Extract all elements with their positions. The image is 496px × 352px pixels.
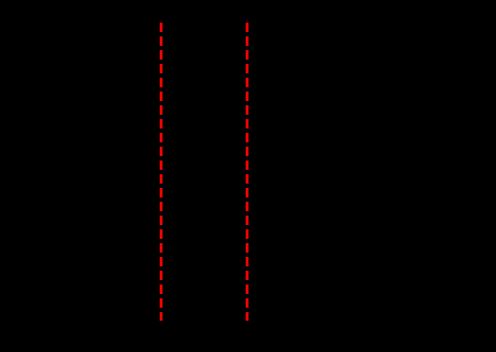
boundary line 1 (red dashed reference plane at left) [160, 23, 163, 321]
capacitor C1 [290, 80, 310, 180]
wire: top rail from node B to load [247, 79, 420, 81]
ground [70, 260, 420, 278]
wire: top rail from source to node A [70, 79, 161, 81]
node B [244, 78, 249, 83]
boundary line 2 (red dashed reference plane at right) [246, 23, 249, 321]
resistor R1 [180, 74, 220, 86]
wire: top rail from node A to node B [161, 79, 247, 81]
voltage source V1 [52, 80, 88, 260]
node A [158, 78, 163, 83]
